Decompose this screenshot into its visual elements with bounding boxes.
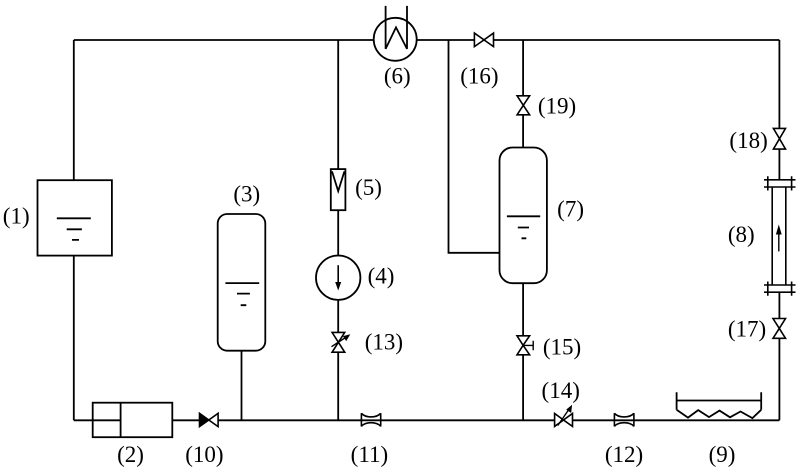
svg-text:(19): (19): [538, 93, 576, 118]
svg-text:(13): (13): [365, 329, 403, 354]
svg-text:(9): (9): [709, 442, 736, 467]
svg-text:(6): (6): [384, 64, 411, 89]
svg-text:(7): (7): [557, 197, 584, 222]
svg-text:(10): (10): [185, 442, 223, 467]
svg-text:(1): (1): [3, 204, 30, 229]
svg-text:(12): (12): [605, 442, 643, 467]
svg-text:(11): (11): [351, 442, 388, 467]
svg-text:(14): (14): [542, 378, 580, 403]
svg-text:(8): (8): [728, 222, 755, 247]
svg-text:(18): (18): [729, 128, 767, 153]
svg-text:(16): (16): [460, 64, 498, 89]
svg-text:(15): (15): [543, 335, 581, 360]
svg-text:(2): (2): [117, 442, 144, 467]
svg-text:(17): (17): [728, 317, 766, 342]
svg-text:(4): (4): [368, 263, 395, 288]
svg-text:(5): (5): [355, 175, 382, 200]
svg-text:(3): (3): [233, 181, 260, 206]
